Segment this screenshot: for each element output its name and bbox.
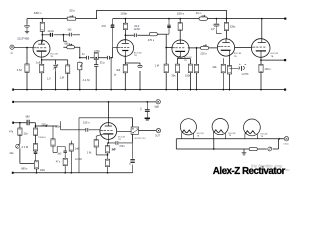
svg-text:470 к: 470 к [148,38,155,42]
resistor 1M grid leak [25,48,29,90]
node J out5 [260,59,262,61]
resistor 47k tone [18,123,22,144]
node J pot top [79,57,81,59]
ground symbol under filter cap [25,31,29,34]
wire cap to bus 111 [110,58,112,90]
svg-text:1,M: 1,M [60,75,64,79]
capacitor snubber 169 [166,19,171,35]
input jack J1 [10,45,14,49]
svg-text:100к: 100к [120,12,127,16]
wire cathode3b [178,59,191,90]
enclosure box loop [79,118,133,173]
wire branch 680k [63,35,66,42]
resistor 220k plate4 [224,19,228,39]
node J cathode6 [107,142,109,144]
triode U1 [33,40,50,60]
svg-text:100 к: 100 к [177,12,185,16]
resistor 71 column [69,141,73,173]
node J rail-42 [41,18,43,20]
resistor cathode5 [259,64,263,72]
jack send [156,100,160,104]
wire plate5 [261,19,263,39]
wire to output terminal [261,59,285,61]
wire plate1 coupling [42,34,80,36]
wire cathode5 output [260,57,262,89]
svg-text:220к: 220к [230,24,236,28]
tone stack top wire [13,123,57,126]
node J 470n [95,57,97,59]
resistor mid tone [33,144,37,152]
node J heater 213 [213,148,215,150]
svg-text:330 n: 330 n [34,11,42,15]
resistor 1M cathode branch [66,60,70,90]
capacitor decouple 0,1 [145,102,150,118]
heater tube H3 [244,119,261,139]
svg-text:the humble amp: the humble amp [251,163,283,168]
resistor loop cathode a [94,134,104,155]
node J subrail 100k [125,18,127,20]
svg-text:3н3: 3н3 [57,152,62,155]
svg-text:TB: TB [234,56,237,58]
resistor cathode3a [176,64,180,73]
wire plate3 to grid4 [188,47,218,49]
capacitor 470n out [116,141,133,173]
node J subrail 262 [261,18,263,20]
bottom bus [12,172,132,174]
svg-text:In: In [11,51,14,55]
svg-text:TB: TB [229,135,232,137]
resistor cathode3b [188,64,192,73]
ground bus [13,89,285,91]
node terminal send start [12,101,14,103]
wire 65 column [57,147,65,173]
svg-text:0,1: 0,1 [141,107,143,111]
svg-text:-3дБ-: -3дБ- [154,106,160,108]
svg-text:33 к: 33 к [69,8,75,12]
svg-text:3к6: 3к6 [116,68,121,72]
svg-text:TB: TB [50,56,53,58]
node J subrail 226 [226,18,228,20]
triode U5 [251,39,270,58]
capacitor treble 680 [27,120,29,125]
node J grid1 [26,47,28,49]
svg-text:TB: TB [184,60,187,62]
node J tone 19.9 [19,122,21,124]
resistor 220k grid stopper [201,44,209,49]
ground bar thick [145,118,150,120]
svg-text:TB: TB [271,56,274,58]
svg-text:TB: TB [134,55,137,57]
ground heater [242,149,247,155]
wire cathode1 [41,60,43,90]
wire input to grid [14,47,33,49]
node J subrail 180 [179,18,181,20]
svg-text:47 к: 47 к [56,160,61,163]
svg-text:100 n: 100 n [83,121,90,125]
capacitor bypass2 [137,65,143,67]
svg-text:A 1 M: A 1 M [75,157,82,161]
svg-text:1к5: 1к5 [112,148,116,151]
resistor loop cathode b [105,143,109,153]
svg-text:3н8: 3н8 [212,66,217,69]
svg-text:1к: 1к [114,74,117,77]
resistor 1M grid3 [164,48,168,90]
resistor cathode4 [227,66,231,75]
resistor bass [34,161,38,173]
svg-text:220 к: 220 к [200,51,207,55]
capacitor electrolytic 1,0 [213,19,222,34]
svg-text:100 к: 100 к [264,67,271,71]
node J send 108 [108,101,110,103]
triode U3 [172,40,189,57]
wire cathode2 [124,56,126,90]
triode U6 [100,123,117,140]
resistor 11n horizontal in rail [199,15,207,20]
svg-text:100к: 100к [40,169,46,172]
capacitor on box edge [129,159,134,165]
svg-text:250 к: 250 к [41,123,48,127]
wire bypass2 [125,63,140,90]
send bus line [13,101,156,103]
wire recovery grid [108,102,110,123]
potentiometer A1M tone [16,144,20,149]
svg-text:470n: 470n [94,49,100,53]
switch box [131,127,138,134]
svg-text:1,0*: 1,0* [211,28,215,31]
resistor 53 mid [51,126,57,152]
node terminal bus start [12,89,14,91]
wire cathode3 [178,56,181,90]
node terminal tone start [12,122,14,124]
svg-text:OUTPUT RU: OUTPUT RU [134,138,146,140]
wire cathode6 out [108,139,115,143]
resistor cathode1 [40,64,44,73]
svg-text:1 M: 1 M [17,68,23,72]
capacitor mid tone [34,152,38,163]
wire B+ rail mid segment [76,10,227,18]
resistor heater line [249,147,257,150]
svg-text:A 1 M: A 1 M [83,78,91,82]
wire heater mid tap [213,139,215,149]
heater tube H2 [212,119,228,139]
capacitor series 2 [108,56,110,60]
resistor 33k (pot in rail) [67,15,75,20]
node terminal B+ [284,18,286,20]
node bottom bus junctions [36,172,109,174]
potentiometer volume A1M [78,62,83,90]
resistor 680k horizontal pot [63,44,79,49]
svg-text:2k2: 2k2 [68,28,73,31]
node J plate2 [125,34,127,36]
svg-text:1n8: 1n8 [36,60,41,64]
bass wire [20,148,35,163]
resistor cathode2 [123,64,127,73]
svg-text:A 1 M: A 1 M [21,145,28,149]
node bus junctions [26,89,262,91]
jack out [156,128,160,132]
svg-text:1 M: 1 M [155,64,159,68]
resistor loop tail [105,159,109,166]
capacitor coupling grid2 [111,19,117,48]
node J subrail 216 [216,18,218,20]
wire plate2 to 470k [125,34,149,36]
svg-text:680 к: 680 к [64,42,71,45]
svg-text:22,0*450: 22,0*450 [17,37,29,41]
svg-text:.ru: .ru [285,168,289,172]
node terminal bottom start [12,172,14,174]
heater lower line [176,139,278,149]
node J 196 [196,47,198,49]
svg-text:1,0: 1,0 [47,77,51,81]
wire signal path y57.7 [80,47,113,57]
wire B+ sub-rail [113,18,285,20]
svg-text:39к: 39к [171,74,176,78]
svg-text:150к: 150к [185,74,191,78]
capacitor 1n series [86,56,88,60]
resistor 100k plate2 [123,19,127,41]
svg-text:22к: 22к [9,151,14,155]
node J tone 35.5 [35,125,37,127]
capacitor 1,0*33 [239,64,247,71]
potentiometer hum balance [268,147,272,151]
wire mixer vertical [79,47,81,58]
capacitor 100n loop [86,128,88,132]
wire loop input [61,121,100,130]
svg-text:1к=8n: 1к=8n [134,28,141,31]
wire switch to out jack [139,130,157,132]
svg-text:1 M: 1 M [87,150,91,154]
capacitor bypass 1,0 [53,65,58,72]
svg-text:TB: TB [118,139,121,141]
wire cathode4 [229,56,231,90]
wire filter cap branch [26,19,28,25]
svg-text:680 к: 680 к [21,166,28,170]
svg-text:33 p: 33 p [100,61,106,65]
svg-text:TB: TB [197,135,200,137]
node J heater 279 [279,138,281,140]
svg-text:680: 680 [26,116,31,119]
node terminal bus end [284,89,286,91]
svg-text:OU,h: OU,h [284,143,290,145]
wire B+ rail left segment [27,18,67,20]
node J send 147 [146,101,148,103]
wire plate6 to switch [117,118,133,132]
capacitor coupling 2k=0 [50,33,52,37]
resistor 47k low [63,158,67,165]
heater tube H1 [180,119,196,139]
resistor divider tube4 [221,58,225,89]
wire grid5 [235,47,252,49]
wire switch down [132,134,134,143]
resistor 100k plate3 [178,19,182,41]
triode U2 [117,40,134,57]
svg-text:11 n: 11 n [196,11,202,15]
heater upper line [176,138,284,140]
resistor 470k horizontal [149,33,166,36]
svg-text:TB: TB [261,136,264,138]
svg-text:1n: 1n [82,52,85,56]
svg-text:470n: 470n [119,145,125,148]
svg-text:TREBLE: TREBLE [38,137,46,139]
resistor 22k tone [33,126,37,144]
capacitor 22.0*450 electrolytic [24,24,30,30]
node J coupling [63,34,65,36]
node J tone 46 [45,125,47,127]
svg-text:3=0: 3=0 [101,24,106,28]
jack speaker [284,137,288,141]
wire bypass branch1 [42,60,68,90]
node terminal out5 [284,59,286,61]
capacitor coupling 2k2 [69,33,71,37]
node J grid3 [165,47,167,49]
wire loop cath join [96,153,107,173]
svg-text:OUT: OUT [155,136,160,138]
node J subrail 169 [168,18,170,20]
wire grid3 [166,34,172,47]
svg-text:1,0*33: 1,0*33 [241,73,249,76]
svg-text:2к=0к: 2к=0к [48,30,55,33]
svg-text:22к: 22к [24,131,29,135]
triode U4 [217,39,234,56]
svg-text:47к: 47к [9,129,14,133]
wire cap 1,0*33 branch [230,67,239,69]
resistor plate R tube1 [40,19,44,43]
resistor 470n vertical [94,53,98,90]
node J loop cath [107,154,109,156]
capacitor coupling2 [134,33,136,37]
resistor divider 196 [194,48,198,90]
capacitor 3n3 [63,151,67,154]
